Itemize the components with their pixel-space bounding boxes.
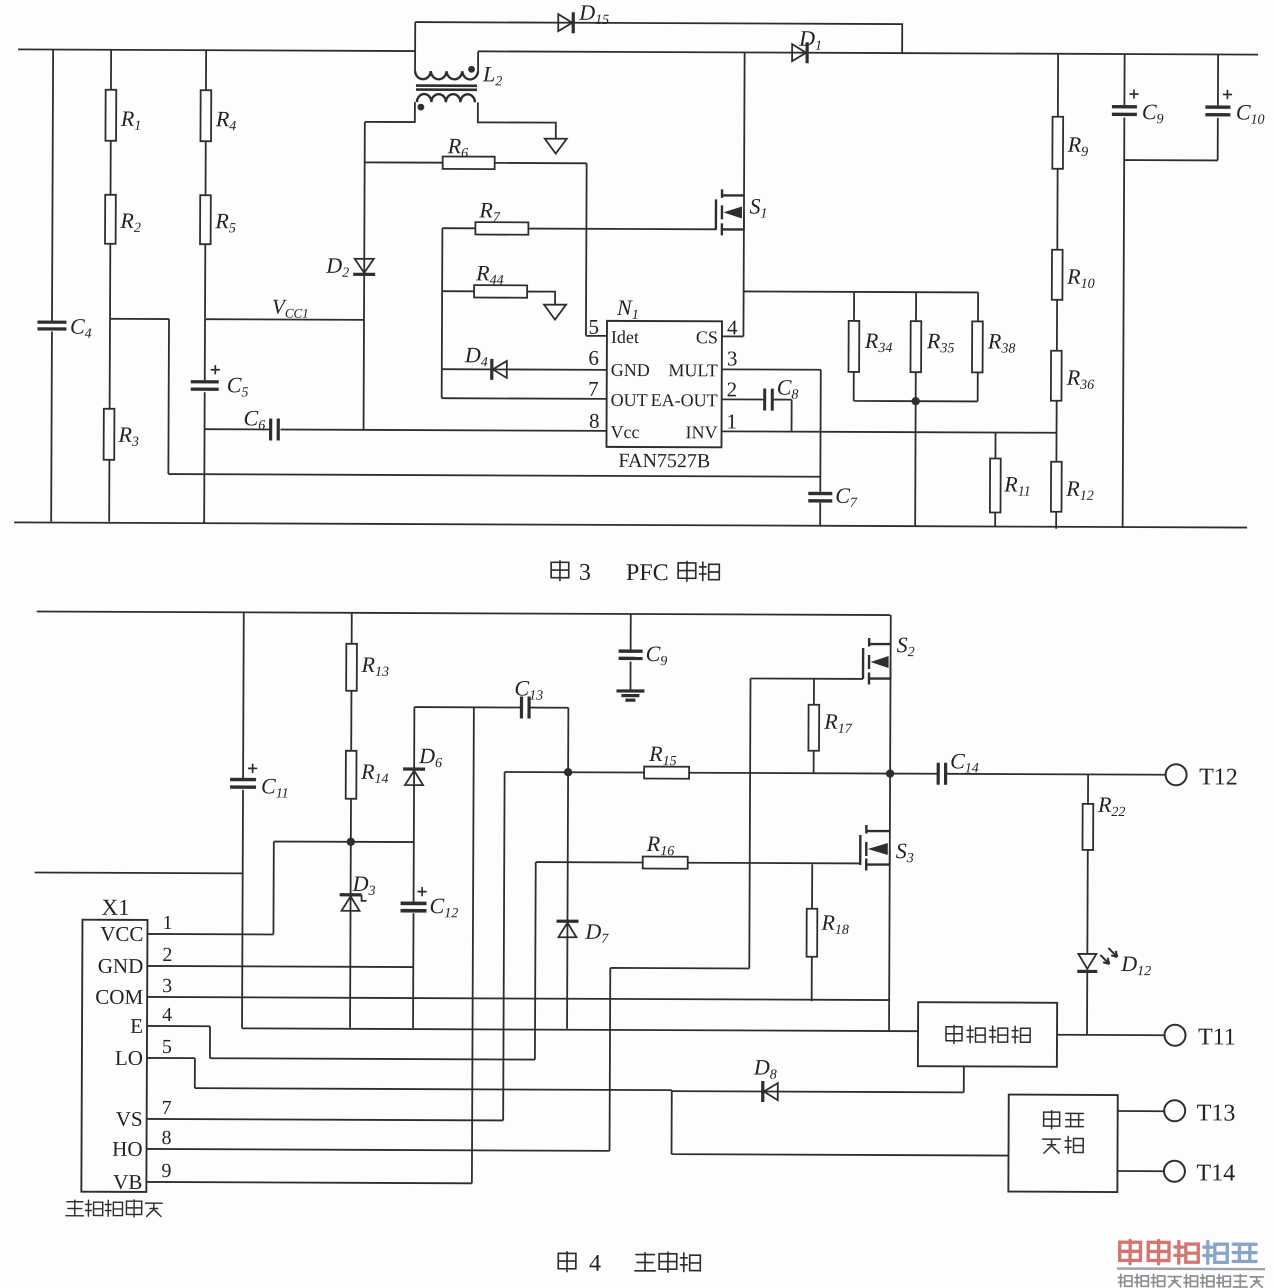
capacitor C8 bbox=[763, 389, 766, 411]
svg-text:VS: VS bbox=[116, 1107, 143, 1131]
svg-text:8: 8 bbox=[589, 409, 600, 433]
watermark underline bbox=[1117, 1267, 1265, 1270]
diode D1 bbox=[792, 44, 806, 61]
capacitor C11 bbox=[230, 778, 256, 782]
op-amp U1 FAN7527B IC N1 bbox=[606, 321, 722, 447]
wire R2-R3 node to return line bbox=[109, 319, 169, 474]
watermark 培训 bbox=[1204, 1241, 1256, 1263]
polarity dot L2 primary bbox=[468, 66, 475, 73]
wire E pin lead bbox=[147, 1026, 210, 1058]
wire Vcc line left of C6 bbox=[205, 428, 270, 430]
wire main rail right of transformer bbox=[478, 51, 1258, 54]
svg-text:VB: VB bbox=[113, 1170, 142, 1194]
wire C11 column bbox=[242, 612, 244, 1028]
svg-text:LO: LO bbox=[115, 1046, 143, 1070]
wire S2 source to midpoint bbox=[889, 662, 891, 773]
resistor R44 bbox=[474, 285, 527, 298]
watermark 射频和天线设计专家 bbox=[1118, 1274, 1263, 1287]
wire second rail figure4 bbox=[35, 871, 243, 874]
svg-text:1: 1 bbox=[162, 912, 172, 934]
wire top rail figure4 bbox=[37, 611, 891, 615]
diode D15 bbox=[558, 14, 572, 31]
junction R14 bottom bbox=[347, 838, 355, 846]
wire R6 left lead bbox=[365, 161, 443, 163]
wire C9 column bbox=[1123, 54, 1125, 528]
terminal T13 bbox=[1164, 1100, 1185, 1121]
wire EA-OUT lead bbox=[722, 398, 764, 400]
diode D2 bbox=[355, 259, 374, 273]
wire AC rail left segment bbox=[18, 49, 415, 51]
block 电流检测 current detection bbox=[918, 1002, 1057, 1067]
resistor R36 bbox=[1051, 351, 1062, 401]
block 电压采样 voltage sampling bbox=[1008, 1095, 1117, 1192]
plus mark C10 bbox=[1223, 90, 1232, 99]
wire secondary left lead bbox=[365, 102, 415, 122]
wire D6 C12 column bbox=[413, 707, 414, 1028]
wire MULT lead and C7 column bbox=[721, 369, 821, 525]
wire R34 R35 R38 bottom bus bbox=[853, 372, 978, 527]
capacitor C4 bbox=[37, 320, 66, 323]
resistor R35 bbox=[910, 321, 921, 372]
svg-text:T12: T12 bbox=[1199, 764, 1238, 790]
wire R6 to Idet riser bbox=[494, 163, 608, 336]
wire INV line bbox=[722, 431, 1057, 432]
wire LO line bbox=[195, 1088, 1009, 1155]
capacitor C12 bbox=[401, 902, 427, 906]
svg-text:5: 5 bbox=[588, 315, 599, 339]
wire VB riser bbox=[146, 706, 473, 1183]
zener D3 bbox=[340, 893, 362, 896]
wire HO pin lead bbox=[147, 1149, 610, 1151]
wire R16 line bbox=[536, 862, 860, 863]
capacitor C9 bbox=[1112, 105, 1137, 109]
wire HO riser to S2 gate bbox=[610, 678, 751, 1152]
capacitor C10 bbox=[1205, 105, 1230, 109]
resistor R3 bbox=[104, 409, 115, 460]
wire D2 branch bbox=[364, 122, 365, 430]
wire S2 gate line bbox=[751, 677, 863, 679]
wire T11 line bbox=[1057, 1034, 1164, 1036]
ground secondary bbox=[545, 139, 567, 154]
svg-text:COM: COM bbox=[95, 985, 143, 1009]
resistor R17 bbox=[808, 705, 819, 751]
wire S1 source bus to R34 R35 R38 bbox=[744, 291, 979, 321]
label 至控制部分 bbox=[66, 1200, 162, 1218]
svg-text:MULT: MULT bbox=[668, 360, 717, 380]
ground C9 fig4 bbox=[616, 691, 644, 700]
svg-text:7: 7 bbox=[162, 1097, 172, 1119]
resistor R22 bbox=[1082, 804, 1093, 850]
capacitor C9 fig4 bbox=[619, 649, 643, 653]
resistor R18 bbox=[807, 909, 818, 957]
svg-text:X1: X1 bbox=[101, 895, 129, 920]
svg-text:Idet: Idet bbox=[611, 327, 639, 347]
wire bottom rail figure3 bbox=[14, 522, 1247, 527]
wire S3 drain bbox=[889, 774, 891, 849]
wire R1 R2 column bbox=[109, 50, 111, 522]
wire OUT pin lead bbox=[442, 397, 607, 400]
svg-text:VCC: VCC bbox=[100, 922, 143, 946]
wire R9-R12 column bbox=[1056, 54, 1058, 529]
resistor R10 bbox=[1052, 250, 1063, 300]
resistor R9 bbox=[1052, 117, 1063, 169]
svg-text:3: 3 bbox=[162, 975, 172, 997]
wire T14 line bbox=[1117, 1170, 1163, 1172]
inductor L2 transformer bbox=[415, 22, 478, 71]
polarity dot L2 secondary bbox=[417, 104, 424, 111]
resistor R4 bbox=[200, 90, 211, 141]
wire Vcc1 line bbox=[206, 318, 364, 321]
wire midpoint to C14 bbox=[890, 773, 937, 775]
watermark 易迪拓 bbox=[1120, 1240, 1199, 1264]
wire R7 R44 OUT bus bbox=[441, 228, 444, 398]
diode D7 bbox=[556, 920, 578, 923]
label 采样 bbox=[1043, 1136, 1083, 1153]
svg-text:7: 7 bbox=[588, 377, 599, 401]
resistor R38 bbox=[972, 321, 983, 372]
LED D12 bbox=[1078, 954, 1096, 969]
connector X1 bbox=[81, 920, 147, 1192]
wire D7 column bbox=[567, 772, 568, 1028]
junction R35 bottom bbox=[911, 397, 919, 405]
svg-text:T11: T11 bbox=[1198, 1024, 1236, 1050]
wire GND pin lead with D4 bbox=[442, 368, 607, 371]
svg-text:OUT: OUT bbox=[611, 390, 648, 410]
wire C10 column bbox=[1217, 54, 1219, 160]
svg-text:8: 8 bbox=[162, 1127, 172, 1149]
svg-text:EA-OUT: EA-OUT bbox=[651, 390, 718, 410]
resistor R7 bbox=[475, 222, 528, 235]
svg-text:2: 2 bbox=[162, 944, 172, 966]
wire ground return line bbox=[168, 474, 820, 477]
wire R44 left lead bbox=[442, 290, 474, 292]
svg-text:3: 3 bbox=[727, 346, 738, 370]
wire VCC pin lead bbox=[147, 933, 273, 936]
plus mark C12 bbox=[417, 887, 426, 896]
wire GND pin lead bbox=[147, 966, 413, 967]
capacitor C6 bbox=[269, 418, 272, 440]
wire C4 branch bbox=[51, 50, 53, 522]
wire C8 to INV bbox=[774, 400, 792, 432]
caption 图 fig4 bbox=[558, 1252, 576, 1272]
wire junction line to VCC riser bbox=[273, 841, 413, 935]
terminal T14 bbox=[1164, 1161, 1185, 1182]
resistor R13 bbox=[346, 644, 357, 691]
wire S3 source net line bbox=[242, 1028, 918, 1031]
wire R7 right lead to S1 gate bbox=[528, 228, 715, 231]
wire C9b branch bbox=[629, 614, 631, 691]
resistor R2 bbox=[105, 195, 116, 244]
plus mark C5 bbox=[211, 365, 220, 374]
capacitor C5 bbox=[191, 380, 219, 383]
wire R22 branch bbox=[1086, 774, 1089, 953]
wire S1 drain from rail bbox=[743, 52, 746, 212]
svg-text:3: 3 bbox=[579, 560, 591, 586]
wire S2 drain bbox=[890, 615, 892, 662]
resistor R15 bbox=[644, 767, 689, 779]
transistor S3 bbox=[860, 825, 890, 871]
wire R13 R14 column bbox=[350, 613, 352, 1028]
svg-text:4: 4 bbox=[589, 1251, 601, 1277]
svg-text:Vcc: Vcc bbox=[610, 422, 639, 442]
resistor R5 bbox=[200, 195, 211, 244]
svg-text:HO: HO bbox=[112, 1137, 142, 1161]
resistor R12 bbox=[1051, 462, 1062, 512]
svg-text:5: 5 bbox=[162, 1036, 172, 1058]
label 电流检测 bbox=[946, 1025, 1030, 1043]
svg-text:INV: INV bbox=[685, 422, 717, 442]
resistor R6 bbox=[443, 156, 495, 169]
wire LO pin lead bbox=[147, 1058, 195, 1088]
svg-text:6: 6 bbox=[588, 346, 599, 370]
wire R11 branch bbox=[994, 433, 996, 527]
wire VS riser bbox=[147, 770, 505, 1120]
wire R44 right lead to ground bbox=[527, 292, 555, 305]
svg-text:1: 1 bbox=[727, 409, 738, 433]
svg-text:E: E bbox=[130, 1014, 143, 1038]
wire Vcc line right of C6 bbox=[281, 430, 607, 431]
capacitor C7 bbox=[808, 492, 832, 496]
caption 电路 bbox=[678, 561, 719, 581]
wire S1 source to CS pin bbox=[722, 212, 744, 336]
wire COM line bbox=[147, 997, 889, 1000]
wire D12 to T11 line bbox=[1086, 973, 1088, 1035]
plus mark C9 bbox=[1129, 89, 1138, 98]
wire R18 branch bbox=[811, 864, 814, 1001]
label 电压 bbox=[1044, 1111, 1084, 1129]
wire C9-C10 bottom link bbox=[1124, 159, 1217, 161]
caption 主电路 bbox=[635, 1252, 700, 1272]
plus mark C11 bbox=[248, 764, 257, 773]
wire T13 line bbox=[1118, 1110, 1164, 1112]
transistor S2 bbox=[863, 638, 891, 685]
svg-text:GND: GND bbox=[98, 954, 144, 978]
wire C13 line bbox=[414, 707, 568, 772]
resistor R1 bbox=[105, 90, 116, 141]
transistor S1 bbox=[716, 189, 744, 235]
wire R4 R5 column bbox=[204, 50, 206, 523]
wire E riser bbox=[210, 861, 536, 1060]
svg-text:4: 4 bbox=[162, 1004, 172, 1026]
svg-text:2: 2 bbox=[727, 377, 738, 401]
wire node A midleft bbox=[505, 771, 568, 773]
wire R15 line bbox=[568, 772, 890, 773]
svg-text:FAN7527B: FAN7527B bbox=[618, 450, 710, 472]
wire R17 branch bbox=[813, 679, 815, 773]
diode D4 bbox=[490, 359, 493, 380]
wire secondary right lead to ground bbox=[478, 102, 556, 138]
capacitor C13 bbox=[520, 697, 523, 719]
capacitor C14 bbox=[937, 763, 940, 785]
terminal T11 bbox=[1164, 1025, 1185, 1046]
wire top branch with D15 bbox=[415, 22, 902, 53]
resistor R14 bbox=[346, 751, 357, 799]
resistor R11 bbox=[990, 458, 1001, 512]
resistor R16 bbox=[643, 857, 688, 869]
svg-text:T14: T14 bbox=[1196, 1160, 1235, 1186]
svg-text:GND: GND bbox=[611, 360, 650, 380]
svg-text:PFC: PFC bbox=[626, 560, 669, 586]
junction midpoint bbox=[886, 769, 894, 777]
caption 图 bbox=[551, 561, 569, 581]
wire S3 source riser bbox=[888, 849, 891, 1032]
wire C14 to T12 bbox=[947, 773, 1165, 776]
wire D8 line bbox=[672, 1091, 964, 1092]
diode D6 bbox=[403, 767, 425, 770]
svg-text:9: 9 bbox=[161, 1160, 171, 1182]
svg-text:T13: T13 bbox=[1197, 1100, 1236, 1126]
junction node A bbox=[564, 768, 572, 776]
ground R44 bbox=[544, 305, 566, 320]
diode D8 bbox=[761, 1081, 764, 1102]
resistor R34 bbox=[848, 321, 859, 372]
wire R7 left lead bbox=[442, 227, 475, 229]
wire box drop to D8 line bbox=[963, 1066, 965, 1092]
svg-text:CS: CS bbox=[696, 327, 718, 347]
terminal T12 bbox=[1166, 764, 1187, 785]
